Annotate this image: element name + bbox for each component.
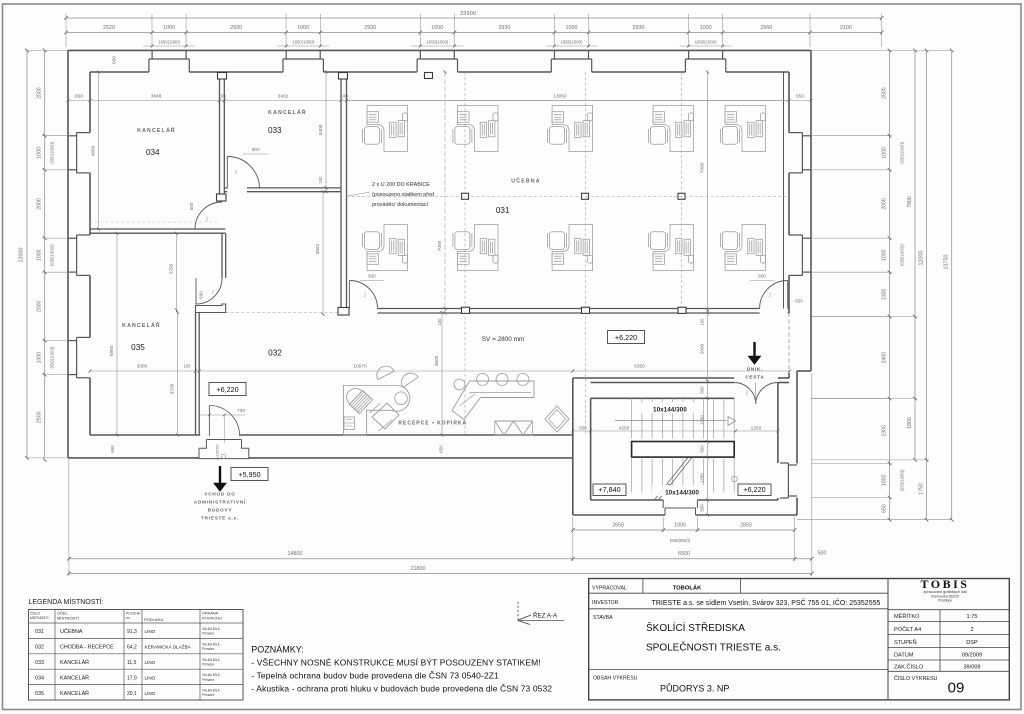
svg-text:2: 2 [970,627,973,633]
svg-text:2520: 2520 [103,25,115,31]
dimension chain: bottom stair segments [573,529,795,531]
round stools [454,379,465,390]
svg-text:2560: 2560 [760,25,772,31]
svg-text:730: 730 [237,408,245,414]
svg-text:RECEPCE • KOPÍRKA: RECEPCE • KOPÍRKA [398,419,467,427]
entrance arrow down [219,466,221,483]
svg-text:6350: 6350 [634,364,645,370]
svg-text:100: 100 [184,364,192,369]
svg-text:031: 031 [35,629,44,635]
svg-text:+6,220: +6,220 [216,385,238,394]
reception desk (kidney counter) [343,386,409,436]
svg-text:1250: 1250 [700,473,705,483]
svg-text:500: 500 [199,291,204,299]
exit double door (UNIK CESTA) [734,383,756,405]
svg-text:12000: 12000 [19,248,25,263]
svg-text:2850: 2850 [740,523,752,529]
wall: room 033 south partition [224,187,227,189]
svg-text:3592: 3592 [315,243,321,254]
svg-text:2930: 2930 [364,25,376,31]
dimension row: top window dims 1650(1000) [143,45,195,47]
svg-text:100: 100 [340,94,348,100]
svg-text:650: 650 [795,299,803,304]
wall: stair south outer face [573,514,665,516]
dim 7000 west [444,72,446,313]
stairs: break line lower flight [654,458,687,500]
svg-text:500: 500 [758,274,766,279]
workstation desk row2 #2 [453,225,498,271]
svg-text:1000: 1000 [882,475,888,487]
svg-text:39/009: 39/009 [963,665,980,671]
junction boxes (column markers) [218,73,227,80]
svg-text:ADMINISTRATIVNÍ: ADMINISTRATIVNÍ [194,498,246,505]
svg-text:650: 650 [110,445,115,453]
workstation desk row1 #4 [648,106,693,152]
svg-text:1000: 1000 [882,249,888,261]
svg-text:ŠxV: ŠxV [744,390,749,395]
svg-text:ŠxV: ŠxV [233,169,238,174]
window, top wall at x=169 [151,50,153,59]
svg-text:1000: 1000 [163,25,175,31]
wall: stair inner north (landing) [591,397,735,399]
svg-text:SPOLEČNOSTI TRIESTE a.s.: SPOLEČNOSTI TRIESTE a.s. [646,641,781,654]
wall: SE step from right wall to stair block [797,370,811,372]
armchair (rotated square) [545,406,569,432]
svg-text:(posouzeno statikem před: (posouzeno statikem před [372,192,434,198]
svg-text:1000: 1000 [431,25,443,31]
svg-text:034: 034 [146,148,160,157]
svg-text:PLOCHA: PLOCHA [126,612,141,616]
door: UCEBNA east end [787,281,789,309]
dimension line: bottom total 21800 [69,572,812,574]
svg-text:(650(1000)): (650(1000)) [900,244,905,266]
svg-text:VALBA BÍLÁ: VALBA BÍLÁ [202,627,221,631]
svg-text:LINO: LINO [145,629,156,634]
svg-text:+5,950: +5,950 [238,470,260,479]
workstation desk row2 #3 [547,225,592,271]
svg-text:2000: 2000 [37,301,43,313]
svg-text:BUDOVY: BUDOVY [208,508,232,513]
wall: stair north band [573,377,734,379]
svg-text:5950: 5950 [109,345,115,356]
svg-text:- Akustika - ochrana proti hlu: - Akustika - ochrana proti hluku v budov… [251,684,552,694]
svg-text:12000: 12000 [919,251,925,266]
svg-text:1800: 1800 [907,417,913,429]
svg-text:PODLAHA: PODLAHA [144,617,163,622]
svg-text:LINO: LINO [145,660,156,665]
svg-text:ŠxV: ŠxV [210,289,215,294]
svg-text:ZAK.ČÍSLO: ZAK.ČÍSLO [894,664,924,671]
svg-text:CESTA: CESTA [745,375,764,380]
wall: right inner face [788,72,790,133]
svg-text:Primalex: Primalex [202,662,215,666]
wall: 035 east step block [196,304,226,313]
svg-text:2000: 2000 [37,198,43,210]
svg-text:OBSAH VÝKRESU: OBSAH VÝKRESU [593,675,638,682]
dashed line corridor top [226,312,341,314]
dim row y=371: 3080/100/10970/6350 [90,370,790,372]
door: room 034 [195,202,222,229]
svg-text:10x144/300: 10x144/300 [665,490,699,497]
svg-text:TRIESTE a.s. se sídlem Vsetín,: TRIESTE a.s. se sídlem Vsetín, Svárov 32… [652,598,881,607]
svg-text:VALBA BÍLÁ: VALBA BÍLÁ [202,673,221,677]
dashed grid vertical x=465 [464,72,466,435]
wall: bottom inner face [90,434,200,436]
svg-text:1650(1000): 1650(1000) [158,40,181,45]
svg-text:KANCELÁŘ: KANCELÁŘ [60,658,89,666]
svg-text:ŠKOLÍCÍ STŘEDISKA: ŠKOLÍCÍ STŘEDISKA [646,621,745,634]
svg-text:7000: 7000 [700,162,706,173]
svg-text:2930: 2930 [633,25,645,31]
svg-text:2250: 2250 [169,263,175,274]
reception cabinet [344,417,355,430]
window: stair east wall [788,464,797,466]
svg-text:20,1: 20,1 [127,691,137,697]
svg-text:(650(1000)): (650(1000)) [50,141,55,163]
workstation desk row1 #5 [720,106,765,152]
svg-text:KANCELÁŘ: KANCELÁŘ [60,673,89,681]
svg-text:100: 100 [700,318,705,326]
entrance door leaf and swing arc [208,406,210,437]
wall: UCEBNA south partition [347,308,350,310]
wall: stair east outer face [796,371,798,463]
svg-text:1000: 1000 [700,25,712,31]
svg-text:6500: 6500 [678,551,690,557]
wall: left outer face [67,50,69,458]
svg-text:3700: 3700 [170,383,176,394]
window, left wall at y=153 [68,135,77,137]
svg-text:KANCELÁŘ: KANCELÁŘ [268,108,307,116]
svg-text:500: 500 [700,504,705,512]
dimension line: left total 12000 [26,50,28,458]
svg-text:7800: 7800 [907,196,913,208]
svg-text:100: 100 [437,318,442,326]
copier with hatch [350,391,373,414]
svg-text:2100: 2100 [840,25,852,31]
dimension line: right 7800/1800 [914,50,916,460]
stairs: middle landing slab [632,442,735,458]
svg-text:DSP: DSP [966,640,978,646]
svg-text:POČET A4: POČET A4 [894,626,921,633]
svg-text:1000: 1000 [37,352,43,364]
window, left wall at y=358 [68,340,77,342]
svg-text:1250: 1250 [700,415,705,425]
svg-text:1000: 1000 [297,25,309,31]
wall: top inner face [90,71,149,73]
svg-text:- VŠECHNY NOSNÉ KONSTRUKCE MUS: - VŠECHNY NOSNÉ KONSTRUKCE MUSÍ BÝT POSO… [251,658,541,668]
dimension chain: left segments [44,50,46,458]
waiting bench (chevron) [452,381,534,420]
svg-text:STUPEŇ: STUPEŇ [894,639,917,646]
stairs: direction line and arrow [615,420,727,422]
svg-text:UČEBNA: UČEBNA [511,178,540,185]
svg-text:STAVBA: STAVBA [593,615,613,621]
elevation label +5,950 entrance [231,468,268,481]
svg-text:10x144/300: 10x144/300 [653,407,687,414]
wall: stair south inner face [591,499,664,501]
dashed line over room 034 [90,221,220,223]
dim 3408/100 room 033 [325,72,327,192]
svg-text:Primalex: Primalex [202,693,215,697]
svg-text:ŘEZ A-A: ŘEZ A-A [533,612,558,620]
svg-text:100: 100 [318,176,323,184]
svg-text:2930: 2930 [230,25,242,31]
legend table [29,610,244,701]
dim row stairs y=431: 500/4250/1250 [571,430,778,432]
dimension line: bottom 14800 / 6500 / 500 [69,558,812,560]
svg-text:MĚŘÍTKO: MĚŘÍTKO [894,612,920,620]
svg-text:KANCELÁŘ: KANCELÁŘ [60,689,89,697]
dimension line: interior horizontal y=100 [68,100,811,102]
dimension line: right 12000/1750 [926,50,928,519]
svg-text:10970: 10970 [353,364,367,370]
svg-text:09: 09 [948,680,965,697]
svg-text:64,2: 64,2 [127,645,137,651]
wall: room 033 east partition [340,72,342,192]
svg-text:+6,220: +6,220 [743,485,765,494]
window, top wall at x=571 [554,50,556,59]
svg-text:500: 500 [700,445,705,453]
dim 3700 [177,313,179,436]
svg-text:500: 500 [818,551,827,557]
svg-text:2930: 2930 [498,25,510,31]
wall: room 035 east partition upper [221,233,223,278]
svg-text:KERAMICKÁ DLAŽBA: KERAMICKÁ DLAŽBA [145,643,192,650]
door: UCEBNA west end [348,281,350,309]
dim chain x=707.5 lower (100,2000,500,1250,500,1250,500) [707,310,709,515]
svg-text:LINO: LINO [145,675,156,680]
svg-text:033: 033 [35,660,44,666]
svg-text:VALBA BÍLÁ: VALBA BÍLÁ [202,642,221,646]
svg-text:23900: 23900 [460,11,476,17]
svg-text:ČÍSLO VÝKRESU: ČÍSLO VÝKRESU [894,675,938,682]
svg-text:650: 650 [796,94,804,100]
wall: stair west inner face [590,398,592,500]
svg-text:3080: 3080 [137,364,148,370]
svg-text:(650(1000)): (650(1000)) [50,346,55,368]
svg-text:PŮDORYS 3. NP: PŮDORYS 3. NP [660,683,729,694]
wall: room 034 east partition [219,72,221,201]
workstation desk row2 #4 [648,225,693,271]
svg-text:650: 650 [882,504,888,513]
workstation desk row2 #5 [720,225,765,271]
svg-text:650: 650 [75,94,83,100]
svg-text:MÍSTNOSTI: MÍSTNOSTI [30,616,49,620]
svg-text:1:75: 1:75 [967,614,978,620]
svg-text:91,3: 91,3 [127,629,137,635]
svg-text:Primalex: Primalex [202,678,215,682]
svg-text:(650(1000)): (650(1000)) [50,244,55,266]
svg-text:033: 033 [268,126,282,135]
svg-text:2000: 2000 [882,198,888,210]
receptionist chair (rotated) [372,403,399,429]
svg-text:zpracování grafických dat: zpracování grafických dat [923,590,967,594]
dimension chain: top segments [66,32,882,34]
svg-text:POZNÁMKY:: POZNÁMKY: [251,645,304,655]
svg-text:2500: 2500 [882,87,888,99]
svg-text:Prostějov: Prostějov [938,598,952,602]
svg-text:034: 034 [35,675,44,681]
svg-text:2400: 2400 [882,352,888,364]
svg-text:ŠxV: ŠxV [204,216,209,221]
svg-text:VALBA BÍLÁ: VALBA BÍLÁ [202,689,221,693]
dim 13050 ucebna [347,100,790,102]
svg-text:1300: 1300 [882,289,888,301]
svg-text:CHODBA - RECEPCE: CHODBA - RECEPCE [60,645,114,651]
visitor fan chairs [377,366,394,379]
entrance porch steps [206,439,241,441]
svg-text:KANCELÁŘ: KANCELÁŘ [137,126,176,134]
workstation desk row2 #1 [362,225,407,271]
wall: stair east inner face [777,383,779,464]
stairs: lower flight treads [631,457,633,492]
svg-text:2500: 2500 [37,411,43,423]
svg-text:031: 031 [496,206,510,215]
elevation label +6,220 stair [738,484,771,496]
dimension chain: top total 23900 [66,17,882,19]
svg-text:500: 500 [700,386,705,394]
wall: UCEBNA east inner lining [783,72,785,309]
svg-text:VALBA BÍLÁ: VALBA BÍLÁ [202,658,221,662]
wall: bottom outer face [68,457,199,459]
window, right wall at y=255 [802,237,811,239]
workstation desk row1 #2 [453,106,498,152]
svg-text:INVESTOR: INVESTOR [592,600,619,606]
svg-text:14800: 14800 [288,551,303,557]
window, top wall at x=706 [688,50,690,59]
svg-text:2 x U 200 DO KRABICE: 2 x U 200 DO KRABICE [372,182,430,188]
svg-text:(650(1000)): (650(1000)) [900,469,905,491]
svg-text:2500: 2500 [37,87,43,99]
svg-text:ŠxV: ŠxV [362,292,367,297]
stairs: upper flight treads [631,398,633,438]
svg-text:3402: 3402 [278,94,289,100]
svg-text:UČEBNA: UČEBNA [60,628,83,635]
wall: room 035 east partition lower [195,313,197,436]
svg-text:ČÍSLO: ČÍSLO [30,611,41,616]
couch zigzag back [495,420,533,422]
svg-text:Primalex: Primalex [202,632,215,636]
svg-text:4650: 4650 [91,145,97,156]
svg-text:1650(1000): 1650(1000) [292,40,315,45]
dimension chain: right segments [889,50,891,519]
svg-text:4250: 4250 [619,426,630,432]
svg-text:11,5: 11,5 [127,660,137,666]
wall: UCEBNA west partition [340,192,342,314]
dimension line: right total 13750 [951,50,953,519]
svg-text:500: 500 [579,426,587,431]
dashed grid vertical x=585 [584,72,586,435]
svg-text:TOBOLÁK: TOBOLÁK [673,585,702,592]
svg-text:100: 100 [218,94,226,100]
svg-text:Primalex: Primalex [202,647,215,651]
svg-text:- Tepelná ochrana budov bude p: - Tepelná ochrana budov bude provedena d… [251,671,499,681]
window, top wall at x=303 [285,50,287,59]
window/door notch: stair south wall [662,500,664,508]
window, top wall at x=437 [419,50,421,59]
door: room 035 [196,278,222,304]
svg-text:LEGENDA MÍSTNOSTÍ:: LEGENDA MÍSTNOSTÍ: [29,597,104,606]
svg-text:13750: 13750 [944,255,950,270]
svg-text:2000: 2000 [700,343,706,354]
svg-text:500: 500 [368,274,376,279]
svg-text:VCHOD DO: VCHOD DO [204,492,235,497]
svg-text:032: 032 [35,645,44,651]
svg-text:1000: 1000 [37,147,43,159]
svg-text:3408: 3408 [318,124,324,135]
svg-text:LINO: LINO [145,691,156,696]
svg-text:TRIESTE a.s.: TRIESTE a.s. [201,516,239,521]
wall: 034/035 south partition [90,228,225,230]
svg-text:3600: 3600 [434,355,440,366]
svg-text:(650(1000)): (650(1000)) [900,141,905,163]
svg-text:035: 035 [131,343,145,352]
svg-text:3848: 3848 [151,94,162,100]
door: room 033 [226,157,228,189]
svg-text:1000: 1000 [674,523,686,529]
workstation desk row1 #1 [362,106,407,152]
svg-text:1000: 1000 [37,249,43,261]
svg-text:1650(1000): 1650(1000) [426,40,449,45]
svg-text:032: 032 [268,349,282,358]
svg-text:1650(1000): 1650(1000) [561,40,584,45]
elevation label +7,840 stair [593,484,626,496]
svg-text:SV = 2800 mm: SV = 2800 mm [482,336,524,343]
dim 4650 room 034 [98,72,100,229]
window, left wall at y=255 [68,237,77,239]
svg-text:POVRCHU: POVRCHU [202,616,222,621]
dim 2250 [176,233,178,310]
svg-text:500: 500 [252,147,260,152]
dim 3592 [322,192,324,315]
svg-text:m²: m² [126,616,131,620]
svg-text:+6,220: +6,220 [615,333,637,342]
svg-text:1000: 1000 [882,147,888,159]
svg-text:+7,840: +7,840 [598,485,620,494]
svg-text:09/2009: 09/2009 [962,652,982,658]
svg-text:13050: 13050 [553,94,567,100]
wall: right outer face [810,50,812,371]
elevation label +6,220 corridor east [608,331,645,344]
svg-text:ÚNIK.: ÚNIK. [747,366,764,372]
svg-text:VYPRACOVAL: VYPRACOVAL [592,586,627,592]
elevation label +6,220 corridor west [209,383,246,396]
svg-text:17,9: 17,9 [127,675,137,681]
wall: stair west outer face [572,378,574,515]
svg-text:500: 500 [189,202,194,210]
svg-text:650: 650 [439,445,444,453]
svg-text:2x135/260: 2x135/260 [215,444,219,460]
dashed grid vertical x=682 [681,72,683,310]
svg-text:650: 650 [112,56,117,64]
svg-text:1650(1000): 1650(1000) [695,40,718,45]
svg-text:DATUM: DATUM [894,652,914,658]
svg-text:2650: 2650 [612,523,624,529]
svg-text:(650(850)): (650(850)) [670,538,691,543]
svg-text:1750: 1750 [919,483,925,495]
svg-text:ŠxV: ŠxV [767,292,772,297]
svg-text:prováděcí dokumentací: prováděcí dokumentací [372,202,429,208]
svg-text:KANCELÁŘ: KANCELÁŘ [122,321,161,329]
svg-text:21800: 21800 [411,566,426,572]
svg-text:1900: 1900 [882,425,888,437]
unik cesta arrow down [753,342,755,356]
wall: left inner face [89,72,91,133]
dim 5950 [116,233,118,435]
section marker REZ A-A [517,602,519,621]
title block [589,579,1010,700]
svg-text:7000: 7000 [437,240,443,251]
